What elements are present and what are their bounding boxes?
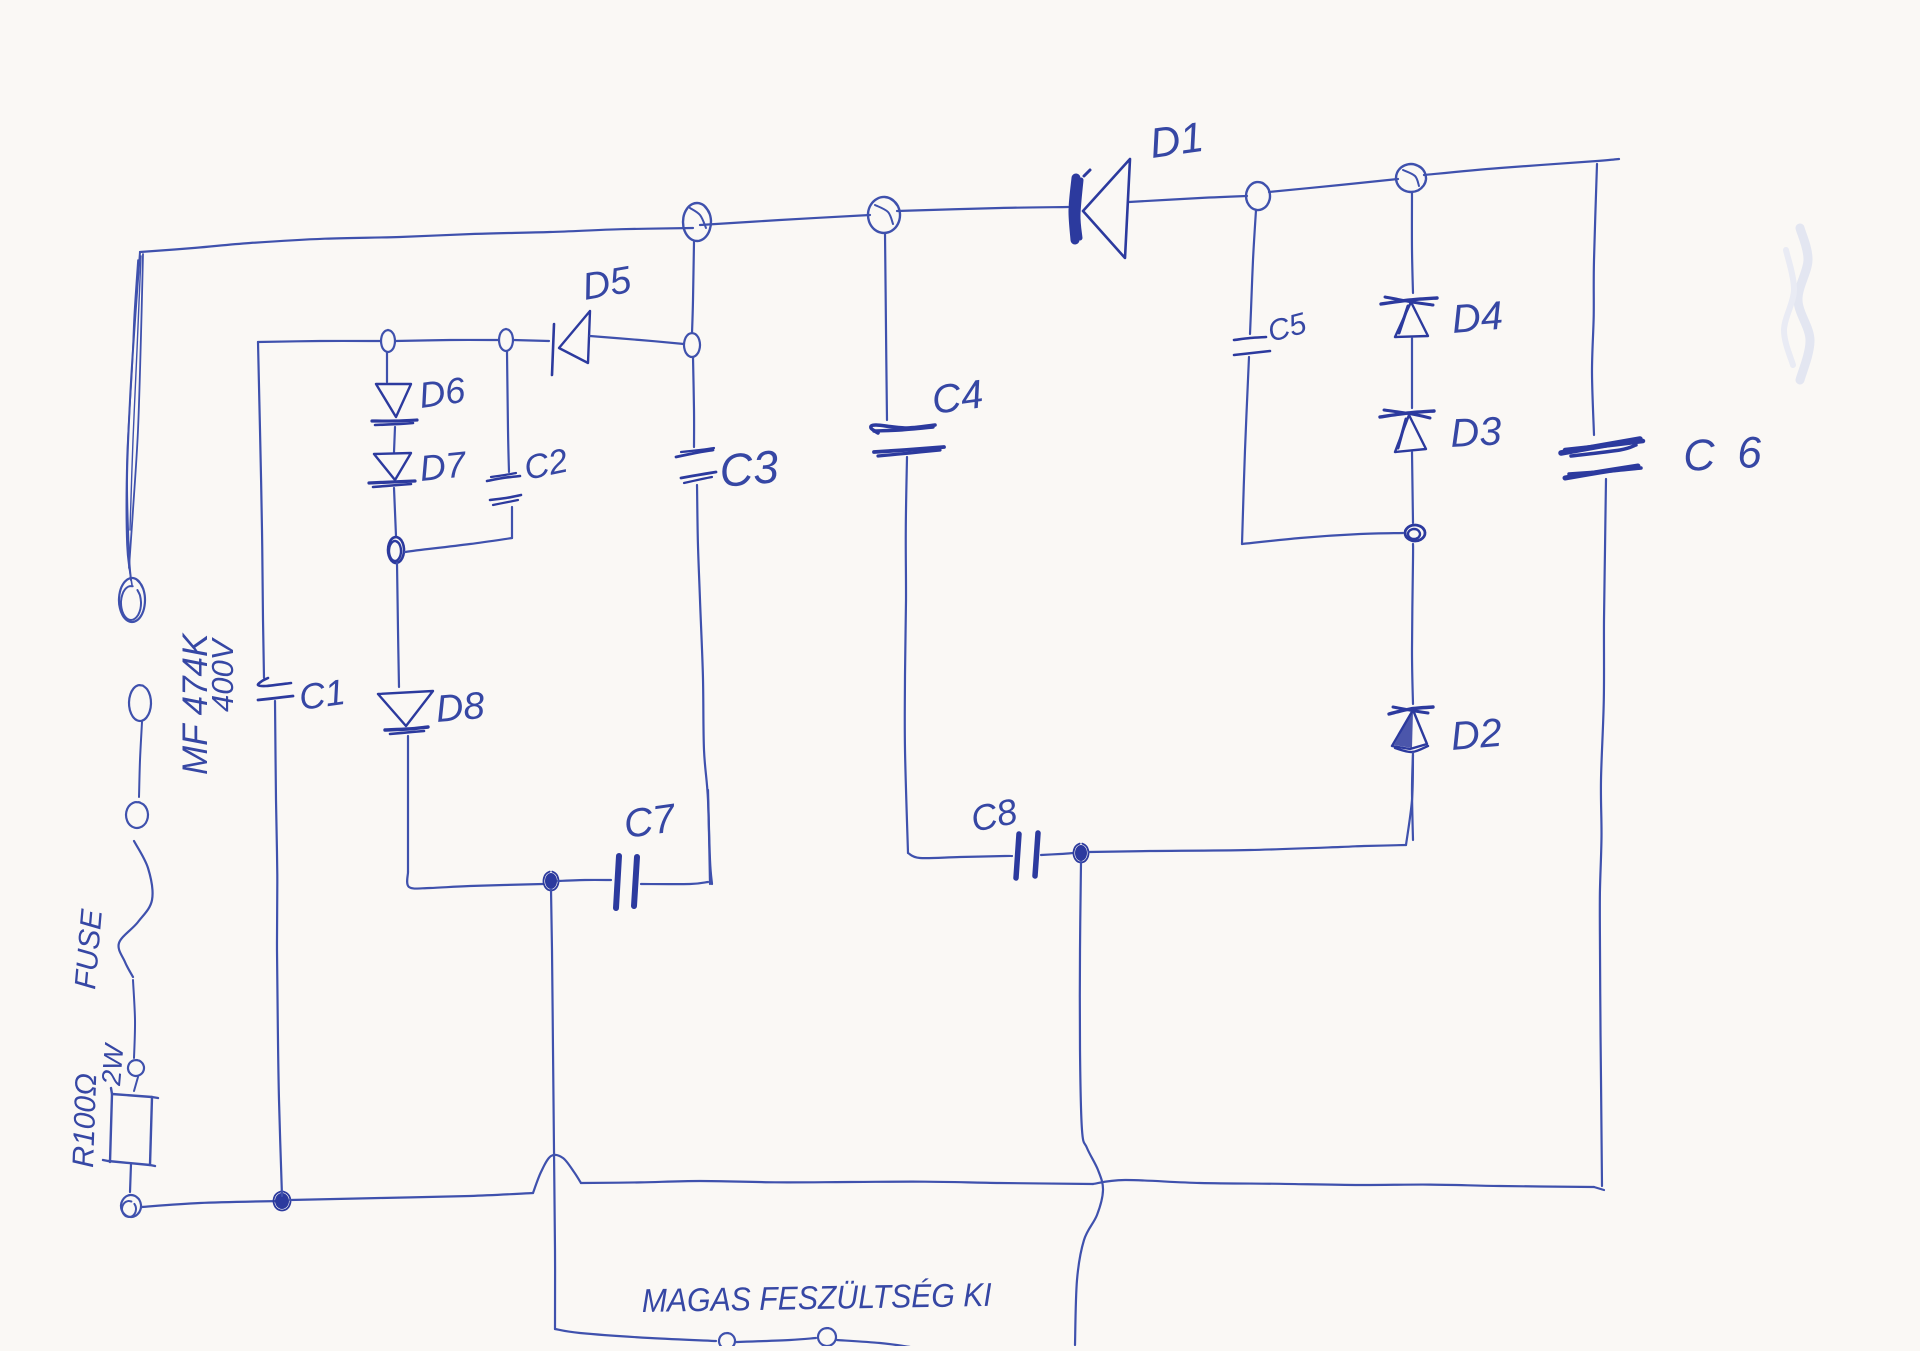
svg-text:D4: D4 bbox=[1450, 294, 1505, 342]
svg-text:C7: C7 bbox=[621, 796, 679, 847]
svg-text:C4: C4 bbox=[929, 372, 986, 423]
svg-text:R100Ω: R100Ω bbox=[67, 1073, 103, 1169]
svg-text:D5: D5 bbox=[579, 259, 635, 309]
svg-text:D8: D8 bbox=[434, 685, 486, 731]
svg-text:C1: C1 bbox=[296, 671, 347, 718]
svg-text:D3: D3 bbox=[1449, 409, 1502, 456]
svg-text:C3: C3 bbox=[717, 440, 781, 497]
svg-text:2W: 2W bbox=[96, 1041, 130, 1087]
svg-text:MAGAS FESZÜLTSÉG KI: MAGAS FESZÜLTSÉG KI bbox=[641, 1276, 992, 1319]
svg-text:D1: D1 bbox=[1147, 113, 1207, 167]
svg-text:FUSE: FUSE bbox=[69, 907, 109, 991]
svg-text:C 6: C 6 bbox=[1682, 428, 1768, 481]
svg-text:D7: D7 bbox=[418, 443, 470, 489]
svg-text:D2: D2 bbox=[1449, 711, 1504, 759]
svg-text:400V: 400V bbox=[205, 636, 240, 712]
svg-text:D6: D6 bbox=[416, 369, 468, 416]
